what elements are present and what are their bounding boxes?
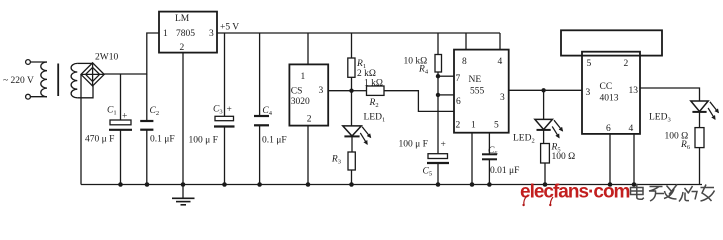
svg-text:8: 8	[462, 57, 467, 67]
label 100 uF C3	[189, 136, 218, 146]
junction CC4013 pin6 on ground rail	[608, 182, 613, 187]
svg-text:1: 1	[471, 121, 476, 131]
capacitor C5 100uF electrolytic	[427, 154, 449, 185]
junction LED2 tap dot	[541, 88, 545, 92]
svg-text:5: 5	[587, 59, 592, 69]
wire terminal bottom to primary	[30, 96, 47, 98]
svg-text:100 μ F: 100 μ F	[189, 136, 218, 146]
capacitor C2 0.1uF	[140, 74, 153, 185]
label C3 +	[213, 105, 232, 116]
wire R1 to node A	[351, 77, 353, 90]
svg-text:470 μ F: 470 μ F	[85, 135, 114, 145]
capacitor C6 0.01uF	[482, 154, 497, 184]
svg-text:3: 3	[500, 93, 505, 103]
label 2W10	[95, 53, 118, 63]
junction C3 on ground rail	[222, 182, 227, 187]
svg-text:4013: 4013	[600, 94, 619, 104]
svg-text:100 Ω: 100 Ω	[552, 152, 576, 162]
capacitor C1 470uF electrolytic	[109, 74, 132, 185]
svg-text:0.01 μF: 0.01 μF	[490, 166, 519, 176]
svg-text:6: 6	[456, 97, 461, 107]
wire +5V to R4	[437, 33, 439, 55]
label R3	[331, 155, 341, 166]
junction C6 on ground rail	[487, 182, 492, 187]
svg-text:2: 2	[456, 121, 461, 131]
wire LM7805 pin2 to ground	[182, 53, 184, 185]
junction C1 on ground rail	[118, 182, 123, 187]
watermark chinese text	[631, 184, 715, 202]
label LED2	[513, 134, 535, 145]
junction R5 on ground rail	[543, 182, 548, 187]
svg-text:6: 6	[606, 124, 611, 134]
AC input terminal top	[26, 60, 31, 65]
svg-text:4: 4	[629, 124, 634, 134]
wire R2 to NE555 pin2	[384, 91, 454, 112]
wire +5V rail end down to NE555 pin4	[499, 33, 501, 50]
wire NE555 pin1 to ground rail	[471, 133, 473, 185]
wire NE555 pin6 stub	[438, 94, 454, 96]
svg-text:+5 V: +5 V	[220, 23, 239, 33]
wire +5V to NE555 pin8	[465, 33, 467, 50]
transformer core	[57, 64, 59, 97]
junction R3 on ground rail	[349, 182, 354, 187]
label LED1	[364, 113, 386, 124]
svg-text:1: 1	[163, 29, 168, 39]
svg-text:2 kΩ: 2 kΩ	[357, 69, 376, 79]
svg-text:3: 3	[209, 29, 214, 39]
svg-text:7: 7	[456, 74, 461, 84]
wire secondary bottom to bridge bottom corner	[77, 86, 93, 98]
svg-text:2: 2	[180, 43, 185, 53]
IC U CC4013	[582, 52, 640, 134]
resistor R6	[695, 128, 704, 148]
label C1 +	[107, 106, 127, 122]
svg-text:elecfans·com: elecfans·com	[520, 182, 630, 203]
capacitor C3 100uF electrolytic	[214, 33, 235, 185]
regulator U LM7805	[159, 12, 217, 53]
label R2	[369, 98, 379, 109]
resistor R3	[348, 152, 355, 170]
svg-text:3020: 3020	[291, 97, 310, 107]
svg-text:LM: LM	[175, 14, 190, 24]
label 470 uF	[85, 135, 114, 145]
LED LED2	[535, 90, 563, 143]
junction C4 on ground rail	[257, 182, 262, 187]
label 0.1 uF C2	[150, 135, 175, 145]
label 1 kOhm	[364, 79, 383, 89]
junction CS3020 pin2 on ground rail	[306, 182, 311, 187]
LED LED3	[691, 101, 719, 128]
resistor R5	[541, 144, 550, 164]
transformer T secondary winding	[71, 63, 77, 97]
svg-text:1: 1	[301, 72, 306, 82]
label LED3	[649, 113, 671, 124]
wire CC4013 pin6 to ground rail	[609, 134, 611, 185]
svg-text:CS: CS	[291, 87, 303, 97]
svg-text:0.1 μF: 0.1 μF	[262, 136, 287, 146]
wire bridge negative (left corner) down to ground rail	[80, 74, 82, 184]
label C2	[150, 106, 160, 117]
bridge rectifier 2W10	[81, 63, 104, 86]
svg-text:3: 3	[586, 88, 591, 98]
svg-text:7805: 7805	[176, 29, 195, 39]
wire CS3020 pin3 to node A	[328, 90, 352, 92]
label C5	[423, 167, 433, 178]
svg-text:100 μ F: 100 μ F	[399, 140, 428, 150]
wire bridge positive output to LM7805 input	[104, 33, 159, 74]
wire CS3020 pin2 to ground rail	[307, 126, 309, 185]
wire +5V to CS3020 pin1	[307, 33, 309, 64]
wire R5 to ground rail	[544, 163, 546, 185]
wire +5V rail	[217, 32, 500, 34]
svg-text:13: 13	[629, 86, 639, 96]
junction LM7805 pin2 on ground rail	[181, 182, 186, 187]
label C6	[488, 146, 498, 157]
svg-text:3: 3	[319, 86, 324, 96]
IC U CS3020	[289, 64, 328, 125]
label R5 100 Ohm	[551, 143, 576, 163]
wire NE555 pin7 stub	[438, 75, 454, 77]
LED LED1	[343, 91, 371, 152]
svg-text:5: 5	[494, 121, 499, 131]
wire NE555 pin3 to CC4013 pin3	[509, 89, 582, 91]
wire R3 to ground rail	[351, 170, 353, 185]
junction NE555 pin1 on ground rail	[470, 182, 475, 187]
resistor R4	[435, 55, 442, 73]
resistor R2	[352, 86, 385, 95]
resistor R1	[348, 58, 355, 77]
svg-text:2: 2	[307, 115, 312, 125]
svg-text:2W10: 2W10	[95, 53, 118, 63]
wire loop above CC4013	[561, 30, 662, 55]
label 100 uF C5	[399, 140, 446, 151]
svg-text:~ 220 V: ~ 220 V	[3, 76, 34, 86]
node A junction dot	[349, 89, 353, 93]
transformer T primary winding	[41, 62, 47, 97]
wire +5V to R1	[351, 33, 353, 58]
wire CC4013 pin4 to ground rail	[633, 134, 635, 185]
svg-text:0.1 μF: 0.1 μF	[150, 135, 175, 145]
label 0.1 uF C4	[262, 136, 287, 146]
watermark elecfans.com	[520, 182, 630, 203]
label 100 Ohm R6	[665, 132, 691, 152]
AC input terminal bottom	[26, 94, 31, 99]
svg-text:LED3: LED3	[649, 113, 671, 124]
wire CC4013 pin13 to LED3	[640, 88, 700, 101]
watermark swash strokes	[522, 196, 553, 206]
svg-text:555: 555	[470, 87, 485, 97]
label 0.01 uF	[490, 166, 519, 176]
svg-text:LED2: LED2	[513, 134, 535, 145]
label +5 V	[220, 23, 239, 33]
svg-text:4: 4	[498, 57, 503, 67]
label R1 2 kOhm	[356, 59, 376, 79]
junction pin7 node	[436, 74, 440, 78]
AC source label ~220 V	[3, 76, 34, 86]
wire ground rail	[81, 184, 702, 186]
svg-text:+: +	[227, 105, 232, 115]
wire NE555 pin5 to C6	[488, 133, 490, 155]
capacitor C4 0.1uF	[254, 33, 269, 185]
svg-text:NE: NE	[469, 75, 482, 85]
junction C5 on ground rail	[436, 182, 441, 187]
svg-text:+: +	[122, 112, 127, 122]
svg-text:+: +	[441, 140, 446, 150]
wire R4 to C5 via pins 7,6	[437, 72, 439, 154]
junction C2 on ground rail	[145, 182, 150, 187]
wire R6 to ground rail	[699, 148, 701, 185]
IC U NE555	[454, 50, 509, 133]
label 10 kOhm R4	[404, 57, 429, 76]
ground	[172, 185, 195, 205]
svg-text:2: 2	[624, 59, 629, 69]
wire terminal top to primary	[30, 61, 47, 63]
svg-text:CC: CC	[600, 82, 613, 92]
svg-text:LED1: LED1	[364, 113, 386, 124]
label C4	[262, 106, 272, 117]
junction CC4013 pin4 on ground rail	[632, 182, 637, 187]
wire secondary top to bridge top corner	[77, 62, 92, 64]
junction pin6 node	[436, 93, 440, 97]
